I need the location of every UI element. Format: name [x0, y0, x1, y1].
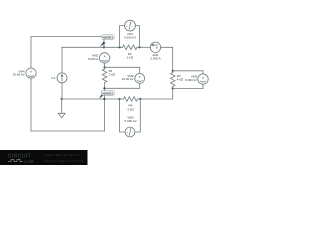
resistor R4: [120, 97, 141, 112]
svg-text:3 kΩ: 3 kΩ: [127, 107, 134, 111]
wire top rail: [31, 37, 104, 69]
svg-text:rocket / BE 215 HW 1.4: rocket / BE 215 HW 1.4: [44, 153, 80, 157]
node NODE1: [100, 35, 114, 49]
svg-text:2 kΩ: 2 kΩ: [109, 73, 116, 77]
junction dots R3 branch: [172, 70, 174, 72]
wire I1 top to NODE1: [62, 46, 104, 48]
node NODE2: [99, 91, 114, 100]
resistor R2: [123, 45, 138, 59]
svg-text:10.00 kV: 10.00 kV: [13, 73, 26, 77]
svg-text:5.000 A: 5.000 A: [88, 57, 99, 61]
svg-text:2.000 kV: 2.000 kV: [124, 35, 137, 39]
svg-text:4 kΩ: 4 kΩ: [177, 78, 184, 82]
svg-text:8.000 kV: 8.000 kV: [185, 78, 198, 82]
voltmeter VM2: [185, 74, 208, 84]
svg-text:1 kΩ: 1 kΩ: [127, 55, 134, 59]
svg-text:http://circuitlab.com/c793c4t: http://circuitlab.com/c793c4t: [44, 159, 84, 163]
resistor R3: [170, 71, 183, 89]
svg-text:−: −: [132, 131, 134, 135]
wire left vertical below VM4: [30, 78, 32, 131]
voltmeter VM1: [124, 20, 137, 39]
resistor R1: [102, 67, 115, 99]
ammeter AM2: [88, 53, 110, 68]
wire VM2 loop: [173, 71, 203, 74]
wire y99 left rail: [62, 98, 120, 100]
svg-text:2.000 A: 2.000 A: [150, 56, 161, 60]
wire VM3 loop: [120, 99, 126, 132]
junction dots R4: [118, 98, 120, 100]
ground: [58, 98, 65, 118]
node dot AM2-R1 junction: [104, 66, 106, 68]
wire R3 bottom to R4 right: [140, 89, 172, 100]
voltmeter VM3: [124, 116, 137, 137]
wire bottom rail: [31, 130, 104, 132]
voltmeter VM4: [13, 68, 37, 78]
wire NODE1 to R2 and AM1: [104, 46, 123, 48]
wire NODE2 drop: [103, 99, 105, 131]
wire VM0 top: [105, 67, 140, 73]
svg-text:LAB: LAB: [25, 159, 34, 164]
svg-text:10.00 kV: 10.00 kV: [122, 77, 135, 81]
svg-text:NODE1: NODE1: [103, 36, 114, 40]
wire AM1 to R3 branch: [161, 47, 173, 71]
watermark bar: [0, 150, 88, 165]
wire VM1 loop: [120, 26, 125, 48]
svg-text:−: −: [132, 24, 134, 28]
voltmeter VM0: [122, 74, 145, 84]
ammeter AM1: [150, 42, 161, 60]
wire VM0 bottom to R1 lead: [104, 83, 139, 88]
svg-text:6.000 kV: 6.000 kV: [124, 119, 137, 123]
svg-text:+: +: [126, 130, 128, 134]
junction dots VM1 taps: [118, 46, 120, 48]
svg-text:+: +: [126, 24, 128, 28]
svg-text:NODE2: NODE2: [102, 92, 113, 96]
current source I1: [51, 47, 67, 99]
